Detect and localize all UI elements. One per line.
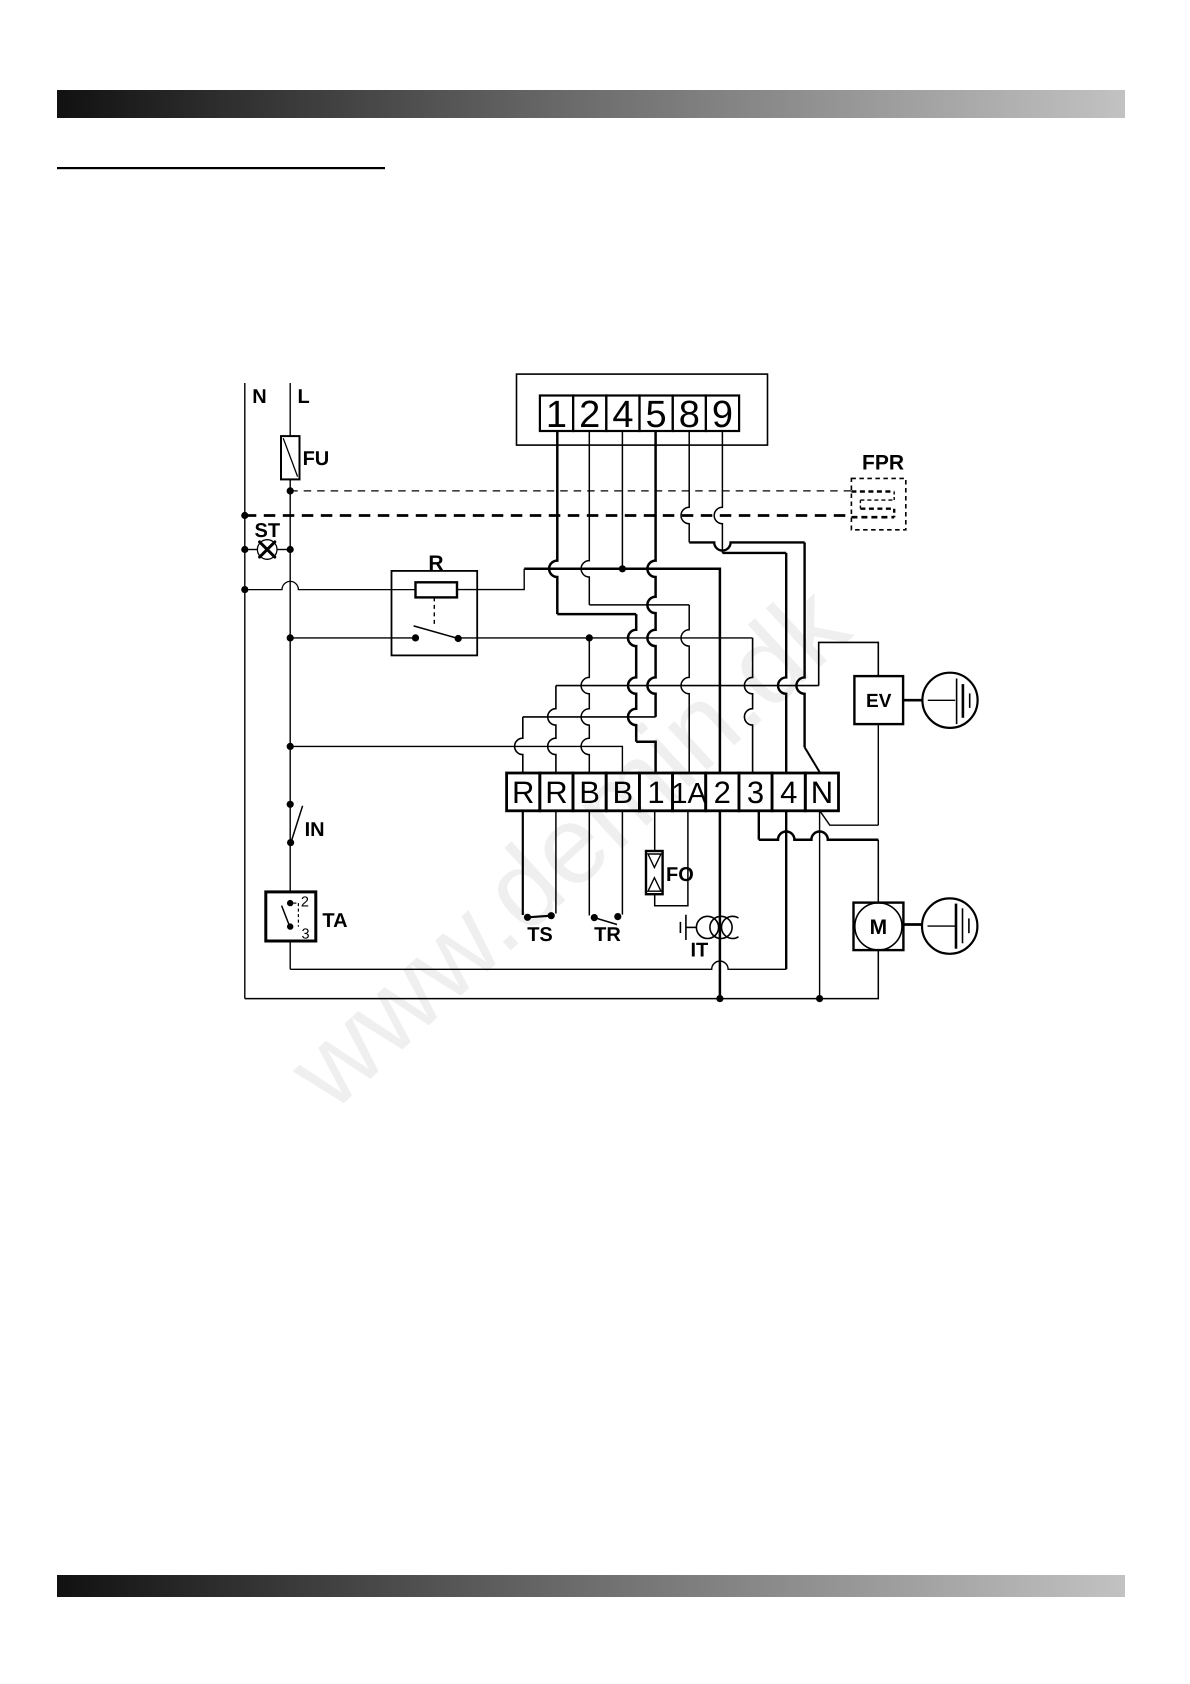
wire row B riser to EV [819, 642, 879, 685]
connector cells 1 2 4 5 8 9 [540, 396, 573, 432]
svg-text:3: 3 [302, 927, 310, 943]
wire 4 drop [621, 431, 623, 569]
thermostat TS [524, 914, 531, 921]
terminal strip R R B B 1 1A 2 3 4 N [507, 773, 540, 811]
svg-text:2: 2 [714, 775, 731, 810]
wire L to R switch [287, 634, 294, 641]
resistor R coil [416, 582, 458, 597]
svg-text:5: 5 [646, 394, 667, 436]
wire row-568 to terminal 2 (thick) [524, 569, 720, 773]
svg-text:B: B [612, 775, 633, 810]
svg-text:B: B [579, 775, 600, 810]
node N-dash junction [241, 512, 248, 519]
wire jog column (thick) [628, 614, 636, 742]
wire 8 end drop to N terminal [796, 542, 804, 747]
dashed remote line thin to FPR [290, 490, 851, 492]
wire row D (L to B) [290, 746, 622, 773]
wire TA to terminal 4 row [290, 961, 786, 969]
wire N to ST [245, 549, 258, 551]
wire N-terminal diagonal to EV/M node [820, 811, 879, 825]
wire TA out to row E [289, 941, 291, 969]
wire ST to L [277, 549, 290, 551]
remote FPR box dashed [851, 478, 905, 529]
wire R2 to TS [555, 811, 557, 914]
FPR internal links [851, 490, 894, 492]
svg-text:ST: ST [255, 520, 281, 542]
svg-text:IN: IN [305, 819, 325, 841]
svg-text:TA: TA [322, 910, 347, 932]
wire row B (EV feed) [556, 685, 819, 687]
fuse FO [646, 851, 663, 894]
wire L below FU [289, 479, 291, 892]
relay box R [392, 571, 478, 656]
svg-text:L: L [298, 386, 310, 408]
spark electrode of IT [685, 915, 687, 940]
wire terminal2 to bus (thick) [719, 811, 722, 999]
dashed actuator link in R [433, 597, 435, 626]
svg-text:2: 2 [579, 394, 600, 436]
thermostat TR [591, 914, 598, 921]
title underline rule [57, 167, 385, 169]
wire 5 drop (thick) [647, 431, 655, 717]
svg-text:M: M [870, 916, 888, 939]
wire 1 drop (thick) [549, 431, 557, 614]
svg-text:R: R [512, 775, 534, 810]
svg-text:FPR: FPR [862, 451, 904, 474]
wire resistor out / step up [457, 569, 524, 590]
wire N line vertical [244, 383, 246, 999]
svg-text:N: N [252, 386, 266, 408]
connector block outer [517, 374, 768, 445]
wire terminal4 leg to row E (thick) [785, 811, 787, 970]
wire R2 leg [548, 686, 556, 773]
wire EV bottom to N node [877, 724, 879, 825]
node B1 junction [586, 634, 593, 641]
svg-text:R: R [545, 775, 567, 810]
svg-text:9: 9 [712, 394, 733, 436]
wire 8 row (hops 9) [689, 542, 804, 550]
svg-text:IT: IT [691, 940, 709, 962]
wire 9 drop to terminal 4 [778, 553, 786, 773]
wire M spine upper [877, 840, 879, 903]
svg-text:1: 1 [546, 394, 567, 436]
wire N to R resistor (hops L) [241, 586, 248, 593]
node w4 on row-568 [619, 565, 626, 572]
wire R1 leg [515, 717, 523, 773]
wire terminal3 column [744, 638, 752, 773]
svg-text:4: 4 [780, 775, 797, 810]
wire R1 to TS [522, 811, 524, 915]
svg-text:FO: FO [666, 864, 694, 886]
svg-text:8: 8 [679, 394, 700, 436]
switch R contacts [412, 634, 419, 641]
svg-text:N: N [811, 775, 833, 810]
wire B1 leg [581, 638, 589, 773]
wire 1 row to jog [557, 613, 636, 616]
pump M box [854, 903, 904, 951]
svg-text:1A: 1A [671, 778, 707, 810]
M earth circle [922, 898, 977, 953]
fuse FU [281, 436, 300, 479]
wire L line top [289, 383, 291, 436]
wire 9 drop [714, 431, 722, 553]
wire 2 row to 1A column [589, 604, 689, 606]
top gradient bar [57, 90, 1125, 118]
wire N-terminal leg to bus [819, 811, 821, 999]
wire EV box to earth symbol [903, 699, 922, 702]
valve EV box [854, 676, 903, 724]
wire R switch to terminal 3 column [458, 637, 752, 639]
wire M box to earth symbol [903, 923, 922, 926]
wire 1A column [681, 605, 689, 773]
svg-text:1: 1 [647, 775, 664, 810]
wire B1 to TR [588, 811, 590, 916]
room stat TA box [266, 892, 316, 941]
svg-text:2: 2 [301, 895, 309, 911]
svg-text:3: 3 [747, 775, 764, 810]
dashed remote line thick to FPR [245, 514, 852, 517]
wire 8 drop [681, 431, 689, 542]
wire 2 drop [581, 431, 589, 605]
wire row to M (thick, hops 4 and N legs) [759, 832, 879, 840]
svg-text:TR: TR [594, 924, 621, 946]
transformer IT [696, 916, 718, 938]
wire jog to terminal 1 (thick) [636, 742, 655, 773]
svg-text:FU: FU [303, 448, 330, 470]
svg-text:4: 4 [612, 394, 633, 436]
bottom bus [245, 950, 879, 999]
wire terminal3 below to M row [758, 811, 760, 840]
bottom gradient bar [57, 1575, 1125, 1597]
svg-text:R: R [428, 552, 443, 575]
wire row C (5 to R) [523, 716, 656, 718]
EV earth circle [922, 673, 977, 728]
wire terminal1 to FO [654, 811, 656, 851]
wire B2 to TR [621, 811, 623, 915]
wire FO to terminal 1A [655, 811, 688, 906]
svg-text:EV: EV [866, 691, 892, 712]
node L-dash junction [287, 487, 294, 494]
switch IN [287, 801, 294, 808]
svg-text:TS: TS [527, 924, 553, 946]
wire 9 row [722, 552, 786, 554]
